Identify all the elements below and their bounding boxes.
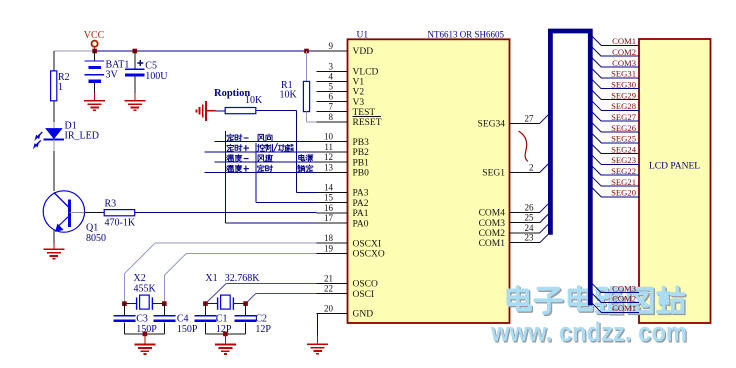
svg-text:GND: GND — [353, 310, 374, 320]
pin 10 PB3 — [317, 141, 348, 143]
junction VCC — [92, 49, 97, 54]
LCD net bottom COM1 — [592, 303, 601, 312]
svg-text:OSCXO: OSCXO — [353, 250, 385, 260]
wire BAT1 to ground — [94, 83, 96, 93]
svg-text:23: 23 — [525, 233, 535, 243]
svg-text:SEG22: SEG22 — [611, 166, 636, 176]
svg-text:C3: C3 — [136, 314, 148, 325]
LCD net COM3 — [592, 58, 601, 67]
resistor R1 — [303, 81, 309, 111]
pin 8 RESET — [317, 121, 348, 123]
transistor Q1 8050 — [43, 191, 84, 232]
svg-text:IR_LED: IR_LED — [65, 131, 99, 142]
svg-text:19: 19 — [324, 243, 334, 253]
bus (thick) — [550, 31, 590, 305]
ground below C5 — [124, 100, 145, 102]
wire pin19 OSCXO to X2 right — [186, 252, 316, 254]
wire X1 bottom — [205, 333, 245, 335]
wire pin20 GND — [316, 312, 319, 314]
svg-text:SEG1: SEG1 — [482, 169, 505, 179]
svg-text:SEG24: SEG24 — [611, 144, 637, 154]
svg-text:PB3: PB3 — [353, 138, 370, 148]
svg-text:10K: 10K — [280, 90, 298, 101]
bus entry pin 2 — [540, 164, 549, 173]
ground below pin20 — [307, 343, 328, 345]
wire matrix row2 (pin11 PB2) — [205, 151, 317, 153]
bus entry pin 23 — [540, 234, 549, 243]
svg-text:OSCI: OSCI — [353, 290, 375, 300]
LCD panel body — [639, 39, 711, 323]
pin 25 COM3 — [510, 222, 540, 224]
svg-text:V3: V3 — [353, 98, 365, 108]
resistor R2 — [51, 71, 57, 101]
svg-text:4: 4 — [329, 71, 334, 81]
svg-text:PB1: PB1 — [353, 158, 370, 168]
svg-text:COM2: COM2 — [479, 229, 506, 239]
LCD net SEG23 — [592, 155, 601, 164]
wire X2 left down — [123, 304, 125, 316]
LCD net SEG28 — [592, 101, 601, 110]
wire matrix row4 (pin13 PB0) — [205, 172, 317, 174]
wire matrix column v3 (Roption) to pin14 PA3 — [296, 111, 298, 193]
capacitor C1 — [194, 315, 216, 317]
svg-text:SEG27: SEG27 — [611, 112, 637, 122]
LCD net SEG26 — [592, 123, 601, 132]
svg-text:10: 10 — [324, 132, 334, 142]
ground below X1 — [215, 343, 236, 345]
pin 17 PA0 — [317, 222, 348, 224]
svg-text:COM3: COM3 — [612, 284, 636, 294]
capacitor C5 — [125, 68, 144, 70]
svg-text:18: 18 — [324, 233, 334, 243]
wire matrix column v1 to pin17 PA0 — [224, 131, 226, 223]
svg-text:COM3: COM3 — [612, 58, 636, 68]
battery BAT1 — [85, 60, 105, 62]
svg-text:16: 16 — [324, 203, 334, 213]
wire C4 to bottom — [163, 322, 165, 334]
svg-text:100U: 100U — [145, 71, 168, 82]
svg-text:24: 24 — [525, 223, 535, 233]
wire to ground X2 — [144, 334, 146, 345]
junction X2 right — [162, 301, 167, 306]
svg-text:NT6613 OR SH6605: NT6613 OR SH6605 — [428, 31, 505, 41]
junction X2 left — [122, 301, 127, 306]
svg-text:COM4: COM4 — [479, 209, 506, 219]
bus entry pin 25 — [540, 214, 549, 223]
svg-text:470-1K: 470-1K — [105, 218, 136, 229]
pin 18 OSCXI — [317, 242, 348, 244]
svg-text:VCC: VCC — [84, 30, 105, 41]
svg-text:7: 7 — [329, 102, 334, 112]
wire R3 to pin16 PA1 — [135, 212, 317, 214]
svg-text:V1: V1 — [353, 78, 365, 88]
wire rail to R2 — [53, 51, 55, 71]
resistor R3 — [104, 210, 135, 216]
wire C3 to bottom — [123, 322, 125, 334]
wire X2 bottom — [124, 333, 164, 335]
svg-text:COM2: COM2 — [612, 293, 636, 303]
pin 5 V2 — [317, 91, 348, 93]
wire matrix row1 (pin10 PB3) — [215, 141, 317, 143]
pin 21 OSCO — [317, 282, 348, 284]
svg-text:SEG26: SEG26 — [611, 123, 637, 133]
wire R1 to pin8 RESET — [306, 112, 308, 122]
svg-text:PA2: PA2 — [353, 199, 369, 209]
op-amp U1 body (IC NT6613 OR SH6605) — [348, 39, 510, 323]
svg-text:3: 3 — [329, 61, 334, 71]
pin 19 OSCXO — [317, 252, 348, 254]
key label row3: 温度- 风速 电源 — [227, 155, 234, 161]
svg-text:X2: X2 — [134, 273, 146, 284]
svg-text:PA3: PA3 — [353, 189, 369, 199]
wire ground to Roption — [216, 110, 226, 112]
svg-text:OSCXI: OSCXI — [353, 239, 382, 249]
pin 9 VDD — [317, 50, 348, 52]
svg-text:25: 25 — [525, 213, 535, 223]
wire rail to R1 — [306, 51, 308, 81]
svg-text:SEG25: SEG25 — [611, 134, 636, 144]
pin 16 PA1 — [317, 212, 348, 214]
svg-text:27: 27 — [525, 113, 535, 123]
svg-text:COM1: COM1 — [612, 303, 636, 313]
wire pin21 OSCO to X1 left — [226, 282, 316, 284]
svg-text:PA1: PA1 — [353, 209, 369, 219]
svg-text:12P: 12P — [255, 324, 271, 335]
svg-text:COM3: COM3 — [479, 219, 506, 229]
crystal X2 — [124, 303, 136, 305]
LCD net SEG31 — [592, 69, 601, 78]
capacitor C2 — [235, 315, 257, 317]
junction C5/rail — [133, 49, 138, 54]
svg-text:32.768K: 32.768K — [225, 273, 260, 284]
junction X1 right — [243, 301, 248, 306]
svg-text:PB2: PB2 — [353, 148, 370, 158]
pin 26 COM4 — [510, 211, 540, 213]
svg-text:VLCD: VLCD — [353, 68, 379, 78]
svg-text:8: 8 — [329, 112, 334, 122]
svg-text:COM1: COM1 — [479, 239, 506, 249]
wire Roption to column v3 — [256, 110, 297, 112]
wire Q1 emitter to ground — [53, 230, 55, 244]
svg-text:3V: 3V — [106, 70, 119, 81]
svg-text:1: 1 — [58, 82, 63, 93]
LCD net SEG30 — [592, 80, 601, 89]
pin 24 COM2 — [510, 232, 540, 234]
svg-text:SEG31: SEG31 — [611, 69, 636, 79]
ground below BAT1 — [84, 100, 105, 102]
LCD net SEG22 — [592, 166, 601, 175]
svg-text:13: 13 — [324, 163, 334, 173]
svg-text:COM1: COM1 — [612, 36, 636, 46]
VCC power symbol — [92, 41, 98, 47]
svg-text:2: 2 — [529, 162, 534, 172]
svg-text:SEG34: SEG34 — [478, 120, 506, 130]
svg-text:11: 11 — [324, 142, 333, 152]
svg-text:SEG23: SEG23 — [611, 155, 636, 165]
wire VCC rail (left light segment) — [54, 50, 95, 52]
LCD net SEG27 — [592, 112, 601, 121]
svg-text:10K: 10K — [245, 95, 263, 106]
svg-text:VDD: VDD — [353, 47, 374, 57]
LCD net bottom COM3 — [592, 284, 601, 293]
svg-text:455K: 455K — [134, 284, 157, 295]
squiggle between SEG34 and SEG1 (omitted pins) — [519, 131, 528, 162]
ground below X2 — [134, 343, 155, 345]
ground below Q1 — [43, 248, 64, 250]
wire D1 to Q1 collector — [53, 140, 55, 152]
svg-text:8050: 8050 — [86, 233, 106, 244]
junction X1 left — [203, 301, 208, 306]
pin 23 COM1 — [510, 242, 540, 244]
svg-text:C2: C2 — [255, 314, 267, 325]
pin 6 V3 — [317, 101, 348, 103]
bus entry pin 27 — [540, 115, 549, 124]
LCD net COM1 — [592, 36, 601, 45]
wire X1 left down — [204, 304, 206, 316]
svg-text:14: 14 — [324, 183, 334, 193]
LCD net SEG24 — [592, 145, 601, 154]
LCD net SEG21 — [592, 177, 601, 186]
wire X2 right down — [163, 304, 165, 316]
LCD net SEG20 — [592, 188, 601, 197]
capacitor C3 — [113, 315, 135, 317]
wire C1 to bottom — [204, 322, 206, 334]
wire rail to BAT1 — [94, 51, 96, 61]
svg-text:SEG28: SEG28 — [611, 101, 636, 111]
svg-text:12: 12 — [324, 152, 333, 162]
svg-text:17: 17 — [324, 213, 334, 223]
wire VCC rail navy — [95, 50, 317, 52]
LCD net SEG29 — [592, 91, 601, 100]
wire C2 to bottom — [245, 322, 247, 334]
pin 2 SEG1 — [510, 171, 540, 173]
junction X2 bottom — [143, 332, 148, 337]
key label row2: 定时+ 控制/功能 — [227, 144, 234, 151]
svg-text:150P: 150P — [177, 324, 198, 335]
pin 3 VLCD — [317, 70, 348, 72]
wire R2 to D1 — [53, 101, 55, 122]
svg-text:X1: X1 — [205, 273, 217, 284]
resistor Roption — [225, 108, 256, 114]
svg-text:C1: C1 — [216, 314, 228, 325]
svg-text:SEG29: SEG29 — [611, 90, 636, 100]
capacitor C4 — [153, 315, 175, 317]
pin 22 OSCI — [317, 293, 348, 295]
wire rail to C5 — [134, 51, 136, 69]
junction R1/rail — [304, 49, 309, 54]
pin 14 PA3 — [317, 192, 348, 194]
svg-text:V2: V2 — [353, 88, 365, 98]
svg-text:OSCO: OSCO — [353, 280, 378, 290]
pin 9 stub — [317, 50, 348, 52]
wire pin22 OSCI to X1 right — [256, 293, 317, 295]
pin 11 PB2 — [317, 151, 348, 153]
svg-text:9: 9 — [329, 41, 334, 51]
power ground for Roption (rotated) — [205, 101, 207, 121]
pin 7 TEST — [317, 111, 348, 113]
bus entry pin 26 — [540, 204, 549, 213]
svg-text:www. cndzz. com: www. cndzz. com — [490, 317, 687, 347]
svg-text:21: 21 — [324, 273, 333, 283]
svg-text:U1: U1 — [357, 31, 369, 41]
svg-text:26: 26 — [525, 202, 535, 212]
pin 27 SEG34 — [510, 122, 540, 124]
svg-text:5: 5 — [329, 82, 334, 92]
pin 20 GND — [317, 312, 348, 314]
key label row4: 温度+ 定时 锁定 — [227, 165, 234, 171]
svg-text:SEG20: SEG20 — [611, 188, 636, 198]
diode D1 IR_LED — [45, 128, 63, 139]
wire Q1 base to R3 — [70, 212, 85, 214]
svg-text:SEG21: SEG21 — [611, 177, 636, 187]
svg-text:RESET: RESET — [353, 118, 382, 128]
svg-text:22: 22 — [324, 284, 333, 294]
junction X1 bottom — [223, 332, 228, 337]
wire to ground X1 — [224, 334, 226, 345]
pin 12 PB1 — [317, 161, 348, 163]
svg-text:PB0: PB0 — [353, 169, 370, 179]
wire C5 to ground — [134, 77, 136, 94]
watermark row1 — [510, 288, 531, 311]
wire matrix column v2 to pin15 PA2 — [255, 143, 257, 203]
D1 LED arrows — [38, 132, 42, 136]
svg-text:PA0: PA0 — [353, 219, 369, 229]
key label row1: 定时- 风向 — [227, 134, 234, 141]
svg-text:SEG30: SEG30 — [611, 79, 636, 89]
pin 13 PB0 — [317, 172, 348, 174]
svg-text:15: 15 — [324, 193, 334, 203]
crystal X1 — [205, 303, 217, 305]
LCD net bottom COM2 — [592, 294, 601, 303]
LCD net SEG25 — [592, 134, 601, 143]
pin 4 V1 — [317, 80, 348, 82]
svg-text:C4: C4 — [177, 314, 189, 325]
C5 plus sign — [137, 60, 143, 66]
pin 15 PA2 — [317, 202, 348, 204]
svg-text:R3: R3 — [105, 199, 117, 210]
LCD net COM2 — [592, 47, 601, 56]
svg-text:LCD PANEL: LCD PANEL — [649, 162, 700, 172]
svg-text:6: 6 — [329, 92, 334, 102]
svg-text:20: 20 — [324, 303, 334, 313]
wire matrix row3 (pin12 PB1) — [215, 161, 317, 163]
wire X1 right down — [245, 304, 247, 316]
bus entry pin 24 — [540, 224, 549, 233]
wire pin18 OSCXI to X2 left — [155, 242, 317, 244]
svg-text:COM2: COM2 — [612, 47, 636, 57]
